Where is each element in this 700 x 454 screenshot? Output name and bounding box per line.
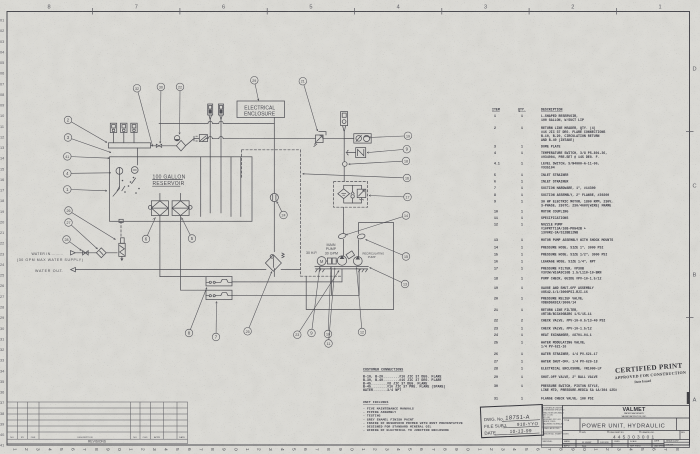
heat exchanger dashed stem <box>120 221 122 238</box>
pressure filter assembly box (17) <box>334 182 368 208</box>
balloon 8 <box>185 288 207 337</box>
certified print stamp <box>614 361 687 385</box>
drain plug <box>119 219 123 222</box>
motor M <box>317 257 326 266</box>
plate instrument <box>121 123 127 132</box>
balloon 4 <box>64 170 111 178</box>
balloon 26 <box>65 207 116 240</box>
electrical enclosure box <box>237 101 285 118</box>
relief fitting <box>346 251 355 259</box>
bowtie valve at plate <box>151 144 177 147</box>
balloon 2 <box>64 116 107 142</box>
balloon 11 <box>325 268 336 348</box>
cabinet dashed boundary <box>121 150 342 276</box>
balloon 14 <box>346 212 410 235</box>
heat exchanger (26) <box>121 238 125 244</box>
balloon 3 <box>64 134 111 153</box>
coupling <box>327 258 331 264</box>
balloon 15 <box>366 239 410 260</box>
left edge microfilm row numbers <box>0 19 4 448</box>
return filter valve (21) <box>316 135 324 143</box>
plate instrument <box>131 123 137 132</box>
balloon 12 <box>356 268 366 336</box>
pump line instrument stem <box>341 112 348 126</box>
cabinet pressure line <box>273 123 275 276</box>
water out arrow <box>71 267 76 271</box>
pressure switch (9) <box>356 148 366 158</box>
level switch circle 1 <box>116 168 123 175</box>
balloon 29 <box>251 77 259 101</box>
return connection instrument <box>208 104 213 115</box>
balloon 16 <box>303 173 411 182</box>
title block <box>563 406 690 448</box>
water strainer diamond (27) <box>96 248 106 258</box>
balloon 5 <box>182 218 196 243</box>
level gauge E-box <box>199 135 207 142</box>
pump labels <box>306 243 384 259</box>
balloon 21 <box>299 77 318 131</box>
balloon 41 <box>64 153 110 161</box>
suction risers to base <box>331 269 359 295</box>
unit includes note <box>363 400 463 432</box>
balloon 10 <box>324 267 332 338</box>
pipe to pump <box>343 207 345 256</box>
revisions table <box>7 402 188 444</box>
balloon 19 <box>369 132 412 140</box>
water in label <box>17 252 83 273</box>
rail R1 drop to filter line <box>273 118 275 124</box>
main pressure pipe <box>343 140 345 182</box>
top zone ruler numbers <box>47 5 661 11</box>
main pump <box>337 256 346 265</box>
reservoir label <box>153 174 186 187</box>
drain drop from pumps <box>341 269 343 282</box>
bottom edge microfilm column numbers <box>12 448 680 451</box>
hose coupling oval R <box>357 233 366 239</box>
balloon 17 <box>369 193 411 201</box>
balloon 32 <box>133 85 153 147</box>
pump check node (18) <box>343 162 348 167</box>
level switch circle 2 <box>131 167 138 174</box>
return line filter (24) <box>270 193 278 201</box>
balloon 6 <box>142 218 155 243</box>
float contacts dots <box>122 180 124 182</box>
balloon 23 <box>294 271 340 339</box>
balloon 9 <box>308 267 321 337</box>
filler strainer diamond <box>176 140 185 151</box>
tolerance box <box>542 406 563 448</box>
balloon 30 <box>157 83 165 143</box>
plate instrument <box>110 123 116 132</box>
water shutoff bowtie (28) <box>83 251 89 255</box>
customer connections note <box>363 368 446 393</box>
water in arrow <box>71 251 76 255</box>
balloon 1 <box>64 186 107 194</box>
return connection instrument <box>219 104 224 115</box>
microfilm black bar <box>687 392 690 404</box>
suction hose (7) <box>181 289 206 291</box>
return rail R1 <box>159 122 274 124</box>
skid rectangle <box>306 223 393 310</box>
balloon 27 <box>65 219 98 249</box>
pump suction rail R2 <box>207 138 345 140</box>
breather filler cap F1 <box>174 136 179 141</box>
water modulating valve (25) <box>265 255 281 271</box>
balloon 7 <box>212 302 220 341</box>
reservoir tank T1 <box>110 157 253 222</box>
base hatch <box>316 269 368 272</box>
recirculating pump <box>353 257 362 266</box>
instrument stems on plate <box>114 133 138 166</box>
dwg number box <box>480 405 543 438</box>
balloon 28 <box>63 236 82 251</box>
balloon 22 <box>176 83 184 134</box>
suction pipe from strainer 1 <box>159 216 161 277</box>
gauge and shutoff assembly (19) <box>354 134 371 143</box>
tank internal return drop pipes <box>201 157 241 217</box>
suction strainer 2 <box>172 201 189 216</box>
hose coupling oval L <box>338 233 347 240</box>
dome plate <box>109 143 151 148</box>
balloon 25 <box>244 272 272 336</box>
right zone ruler letters <box>692 67 696 404</box>
balloon 9 <box>367 145 411 153</box>
parts list table <box>492 108 617 401</box>
pump baseline <box>315 266 369 268</box>
suction pipe from strainer 2 <box>180 216 182 291</box>
balloon 13 <box>370 268 409 288</box>
suction hose (8) <box>160 276 206 278</box>
suction strainer 1 <box>151 201 168 216</box>
recirculating line <box>358 223 360 257</box>
balloon 24 <box>277 202 288 219</box>
balloon 18 <box>349 157 410 165</box>
